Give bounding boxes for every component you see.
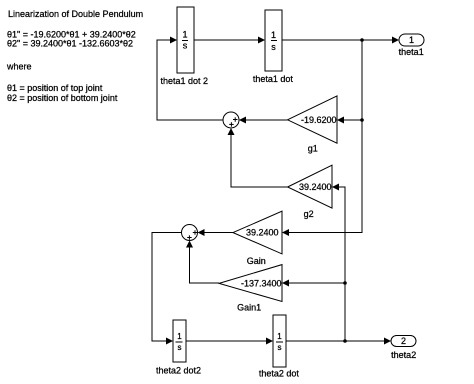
svg-text:-137.3400: -137.3400 bbox=[241, 278, 282, 288]
svg-text:g2: g2 bbox=[304, 209, 314, 219]
svg-text:g1: g1 bbox=[308, 144, 318, 154]
svg-text:Gain: Gain bbox=[247, 256, 266, 266]
svg-text:theta2 dot2: theta2 dot2 bbox=[156, 366, 201, 376]
svg-text:θ2 = position of bottom joint: θ2 = position of bottom joint bbox=[7, 93, 118, 103]
svg-text:theta2 dot: theta2 dot bbox=[259, 369, 300, 379]
svg-text:s: s bbox=[271, 42, 276, 52]
svg-text:theta1: theta1 bbox=[399, 47, 424, 57]
svg-text:theta1 dot 2: theta1 dot 2 bbox=[161, 76, 209, 86]
svg-text:2: 2 bbox=[401, 336, 406, 346]
svg-text:39.2400: 39.2400 bbox=[299, 182, 332, 192]
svg-text:1: 1 bbox=[409, 35, 414, 45]
svg-text:1: 1 bbox=[177, 332, 182, 341]
svg-text:θ1 = position of top joint: θ1 = position of top joint bbox=[7, 83, 103, 93]
svg-text:θ2" = 39.2400*θ1 -132.6603*θ2: θ2" = 39.2400*θ1 -132.6603*θ2 bbox=[7, 38, 133, 48]
svg-text:theta2: theta2 bbox=[391, 350, 416, 360]
svg-text:theta1 dot: theta1 dot bbox=[253, 74, 294, 84]
svg-text:1: 1 bbox=[277, 332, 282, 341]
svg-text:1: 1 bbox=[271, 30, 276, 40]
svg-text:where: where bbox=[6, 61, 32, 71]
svg-text:Linearization of Double Pendul: Linearization of Double Pendulum bbox=[8, 9, 143, 19]
svg-text:s: s bbox=[178, 343, 182, 352]
svg-text:s: s bbox=[278, 343, 282, 352]
svg-text:39.2400: 39.2400 bbox=[246, 228, 279, 238]
svg-text:1: 1 bbox=[182, 30, 187, 40]
svg-text:Gain1: Gain1 bbox=[237, 303, 261, 313]
svg-text:-19.6200: -19.6200 bbox=[301, 115, 337, 125]
svg-text:s: s bbox=[183, 41, 188, 51]
